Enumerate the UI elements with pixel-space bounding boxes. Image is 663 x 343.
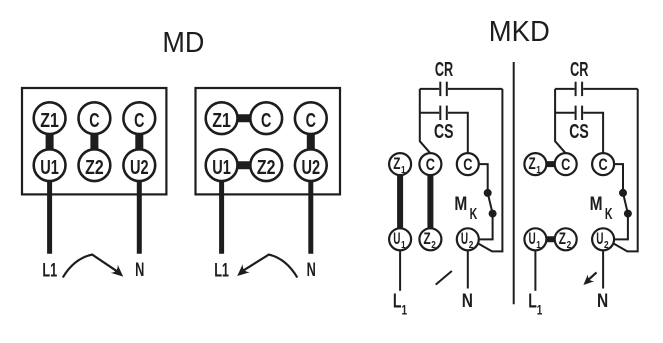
svg-text:C: C bbox=[561, 155, 570, 174]
svg-text:1: 1 bbox=[536, 164, 541, 176]
svg-text:M: M bbox=[590, 193, 603, 215]
svg-text:1: 1 bbox=[401, 164, 406, 176]
svg-text:U: U bbox=[461, 229, 468, 248]
svg-text:C: C bbox=[261, 109, 271, 132]
svg-text:U1: U1 bbox=[40, 156, 59, 179]
svg-text:2: 2 bbox=[469, 239, 474, 251]
svg-text:U2: U2 bbox=[302, 156, 321, 179]
svg-text:Z: Z bbox=[393, 154, 400, 173]
svg-text:2: 2 bbox=[567, 239, 572, 251]
svg-text:N: N bbox=[597, 291, 608, 312]
svg-text:U: U bbox=[529, 229, 536, 248]
svg-text:U: U bbox=[393, 229, 400, 248]
svg-text:Z: Z bbox=[529, 154, 536, 173]
svg-text:U1: U1 bbox=[212, 156, 231, 179]
svg-text:2: 2 bbox=[431, 239, 436, 251]
svg-text:U2: U2 bbox=[130, 156, 149, 179]
svg-text:CS: CS bbox=[434, 120, 454, 143]
svg-text:1: 1 bbox=[401, 239, 406, 251]
svg-text:N: N bbox=[307, 260, 316, 281]
svg-text:C: C bbox=[599, 155, 608, 174]
svg-text:Z: Z bbox=[559, 229, 566, 248]
svg-text:Z1: Z1 bbox=[212, 109, 231, 132]
svg-text:K: K bbox=[470, 206, 478, 223]
svg-text:C: C bbox=[306, 109, 316, 132]
svg-text:CS: CS bbox=[569, 120, 589, 143]
svg-text:Z1: Z1 bbox=[40, 109, 59, 132]
svg-text:Z: Z bbox=[424, 229, 431, 248]
svg-text:2: 2 bbox=[604, 239, 609, 251]
svg-text:L1: L1 bbox=[42, 260, 57, 281]
svg-text:C: C bbox=[134, 109, 144, 132]
svg-text:1: 1 bbox=[402, 303, 408, 318]
svg-text:L: L bbox=[528, 289, 537, 312]
svg-text:Z2: Z2 bbox=[85, 156, 104, 179]
svg-text:N: N bbox=[462, 291, 473, 312]
svg-text:U: U bbox=[596, 229, 603, 248]
svg-text:N: N bbox=[135, 260, 144, 281]
svg-text:1: 1 bbox=[536, 239, 541, 251]
svg-text:C: C bbox=[89, 109, 99, 132]
svg-text:L: L bbox=[393, 289, 402, 312]
svg-text:1: 1 bbox=[537, 303, 543, 318]
svg-text:M: M bbox=[454, 193, 467, 215]
svg-text:C: C bbox=[463, 155, 472, 174]
svg-text:Z2: Z2 bbox=[257, 156, 276, 179]
svg-text:MD: MD bbox=[162, 27, 204, 59]
svg-text:CR: CR bbox=[570, 58, 588, 81]
svg-text:CR: CR bbox=[435, 58, 453, 81]
svg-text:C: C bbox=[426, 155, 435, 174]
svg-text:MKD: MKD bbox=[489, 16, 550, 48]
svg-text:L1: L1 bbox=[214, 260, 229, 281]
svg-text:K: K bbox=[605, 206, 613, 223]
